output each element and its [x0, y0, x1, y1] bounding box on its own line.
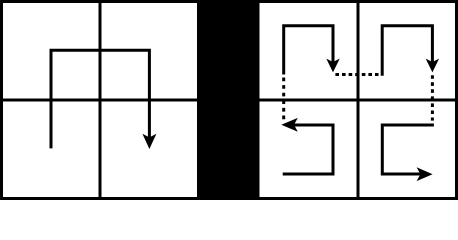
right panel vertical grid line: [357, 0, 360, 200]
left panel vertical grid line: [99, 0, 102, 200]
top-right cell down arrowhead: [426, 59, 439, 73]
left panel border: [2, 2, 199, 199]
left panel horizontal grid line: [0, 99, 198, 102]
top-right cell hook path: [382, 26, 432, 76]
bottom-right cell hook path: [382, 125, 434, 174]
dotted wrap link vertical right (top-right to bottom-right): [431, 75, 434, 120]
bottom-left cell left arrowhead: [281, 118, 298, 132]
top-left cell down arrowhead: [326, 59, 339, 73]
bottom-left cell hook path: [283, 125, 333, 174]
separator band: [198, 0, 260, 200]
left panel down arrowhead: [142, 134, 156, 149]
dotted wrap link vertical left (top-left to bottom-left): [282, 78, 285, 120]
left panel scan path: [51, 50, 149, 148]
right panel border: [257, 2, 457, 199]
top-left cell hook path: [284, 26, 333, 75]
dotted wrap link horizontal (top-left to top-right): [335, 73, 378, 76]
right panel horizontal grid line: [258, 99, 458, 102]
bottom-right cell right arrowhead: [417, 167, 433, 181]
